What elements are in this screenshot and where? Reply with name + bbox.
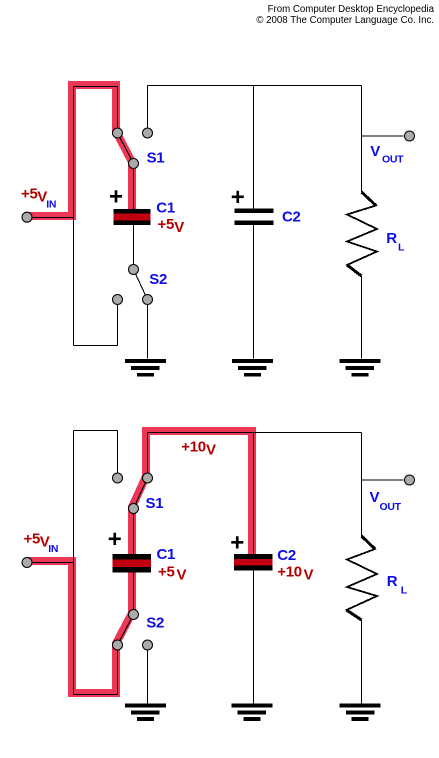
wire bottom-left horizontal	[74, 345, 118, 347]
svg-text:From Computer Desktop Encyclop: From Computer Desktop Encyclopedia	[268, 4, 435, 15]
wire down to S1 left contact (bottom)	[117, 431, 119, 479]
switch S2 blade (closed to ground)	[134, 270, 148, 300]
wire Vout tap (bottom)	[362, 479, 404, 481]
svg-text:L: L	[398, 241, 405, 253]
ground under S2	[125, 359, 166, 377]
wire top rail	[148, 85, 362, 87]
capacitor C2 plates	[235, 209, 274, 226]
S1 left contact node	[113, 128, 123, 138]
ground under S2 (bottom)	[125, 704, 166, 721]
Vout terminal node (bottom)	[405, 475, 415, 485]
capacitor C2 body (bottom, charged +10V)	[234, 554, 273, 571]
svg-text:C2: C2	[277, 547, 296, 564]
svg-text:© 2008 The Computer Language C: © 2008 The Computer Language Co. Inc.	[256, 15, 434, 26]
wire left vertical branch	[73, 87, 75, 346]
svg-text:S2: S2	[149, 271, 167, 288]
ground under RL (bottom)	[340, 704, 381, 721]
wire rail to C2 top (bottom)	[253, 433, 255, 555]
ground under C2	[232, 359, 273, 377]
wire S1 right contact to rail (bottom)	[147, 433, 149, 479]
svg-text:+: +	[108, 526, 122, 553]
svg-text:+: +	[230, 529, 244, 556]
wire S1 pole to C1 top (bottom)	[133, 509, 135, 555]
wire RL bottom to ground (bottom)	[361, 620, 363, 704]
wire +10V rail (bottom)	[148, 432, 362, 434]
svg-text:V: V	[370, 143, 380, 160]
svg-text:C1: C1	[156, 199, 175, 216]
svg-text:V: V	[370, 489, 380, 506]
switch S1 blade (closed to input)	[118, 133, 134, 164]
S1 pole node	[129, 159, 139, 169]
ground under RL	[340, 359, 381, 377]
wire top-left horizontal (bottom)	[74, 430, 118, 432]
capacitor C1 body	[114, 209, 151, 225]
svg-text:+5: +5	[24, 531, 41, 548]
wire C2 bottom to ground	[253, 225, 255, 359]
svg-text:+5: +5	[21, 186, 38, 203]
current path highlight: C1 top through S1 to C2 (+10V rail)	[132, 431, 252, 554]
switch S1 blade (closed to rail, bottom)	[134, 478, 148, 509]
wire bottom-left horizontal (bottom)	[74, 694, 118, 696]
resistor RL bold end strokes	[347, 192, 376, 276]
wire input horizontal	[27, 217, 74, 219]
wire C2 bottom to ground (bottom)	[253, 571, 255, 705]
S2 left contact node	[113, 295, 123, 305]
resistor RL zigzag	[347, 192, 377, 276]
svg-text:+10: +10	[181, 439, 206, 456]
switch S2 blade (closed to input, bottom)	[118, 615, 134, 646]
svg-text:+: +	[109, 184, 123, 211]
current path highlight: input through S1 into C1	[28, 85, 133, 216]
S2 left contact node (bottom)	[113, 640, 123, 650]
Vout terminal node	[405, 131, 415, 141]
svg-text:OUT: OUT	[380, 501, 402, 513]
svg-text:C1: C1	[157, 546, 176, 563]
svg-text:S1: S1	[147, 150, 165, 167]
wire S2 left contact down (bottom)	[117, 645, 119, 695]
S2 right contact node	[143, 295, 153, 305]
svg-text:+10: +10	[277, 563, 302, 580]
wire Vout tap	[362, 135, 404, 137]
svg-text:C2: C2	[282, 209, 301, 226]
wire top-left horizontal	[74, 86, 118, 88]
input terminal node (bottom)	[22, 558, 32, 568]
wire RL bottom to ground	[361, 276, 363, 359]
S2 pole node	[129, 265, 139, 275]
S2 right contact node (bottom)	[143, 640, 153, 650]
ground under C2 (bottom)	[232, 704, 273, 721]
wire C1 bottom to S2 pole	[133, 225, 135, 270]
current path highlight: input through S2 to C1 bottom	[28, 561, 133, 693]
svg-text:+5: +5	[158, 564, 175, 581]
S2 pole node (bottom)	[129, 610, 139, 620]
svg-text:V: V	[174, 219, 184, 236]
S1 left contact node (bottom)	[113, 473, 123, 483]
svg-text:+5: +5	[158, 216, 175, 233]
svg-text:R: R	[386, 230, 397, 247]
wire input horizontal (bottom)	[27, 562, 74, 564]
wire C1 bottom to S2 pole (bottom)	[133, 572, 135, 615]
wire S1 pole to C1 top	[133, 164, 135, 210]
S1 right contact node	[143, 128, 153, 138]
svg-text:S1: S1	[146, 495, 164, 512]
input terminal node	[22, 212, 32, 222]
svg-text:IN: IN	[46, 199, 56, 211]
wire S2 left contact stub	[117, 300, 119, 346]
svg-text:V: V	[206, 442, 216, 459]
wire S2 right contact to ground	[147, 300, 149, 359]
svg-text:R: R	[387, 573, 398, 590]
svg-text:IN: IN	[48, 543, 58, 555]
wire right branch down	[361, 86, 363, 193]
S1 right contact node (bottom)	[143, 473, 153, 483]
svg-text:OUT: OUT	[382, 154, 404, 166]
wire right branch down (bottom)	[361, 433, 363, 537]
S1 pole node (bottom)	[129, 504, 139, 514]
resistor RL zigzag (bottom)	[347, 536, 378, 620]
svg-text:V: V	[177, 567, 187, 584]
wire rail to C2 top	[253, 86, 255, 210]
svg-text:V: V	[304, 566, 314, 583]
svg-text:L: L	[401, 585, 408, 597]
wire left vertical branch (bottom)	[73, 431, 75, 695]
resistor RL bold end strokes (bottom)	[347, 536, 376, 620]
wire S1 right contact to top rail	[147, 86, 149, 134]
wire S2 right contact to ground (bottom)	[147, 645, 149, 704]
capacitor C1 body (bottom, charged +5V)	[113, 554, 152, 573]
svg-text:+: +	[231, 184, 245, 211]
svg-text:S2: S2	[146, 615, 164, 632]
wire down to S1 left contact	[117, 87, 119, 134]
